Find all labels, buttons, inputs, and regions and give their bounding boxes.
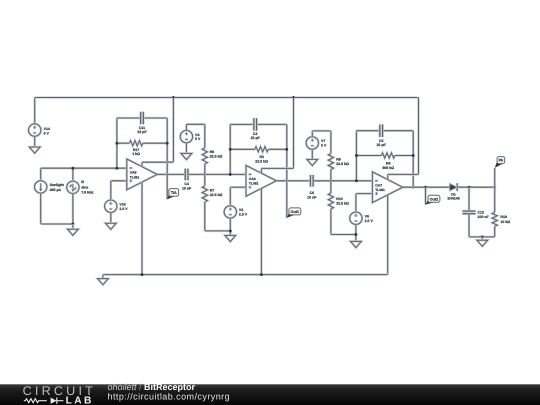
- node OA6 V- junction: [260, 273, 263, 276]
- wire D1 cathode to peak detector: [457, 186, 495, 188]
- wire R7 to V3 ground: [205, 202, 231, 231]
- wire R17 row left: [117, 142, 129, 144]
- svg-text:10 nF: 10 nF: [182, 187, 192, 191]
- svg-text:TL081: TL081: [249, 182, 259, 186]
- node peak ground junction: [481, 235, 484, 238]
- svg-text:22 pF: 22 pF: [251, 136, 261, 140]
- node C12 junction: [468, 186, 471, 189]
- node feedback2 left R3: [229, 148, 232, 151]
- wire feedback1 top: [117, 117, 167, 119]
- svg-text:22.6 kΩ: 22.6 kΩ: [255, 160, 268, 164]
- node feedback3 input: [355, 179, 358, 182]
- svg-text:22.6 kΩ: 22.6 kΩ: [210, 193, 223, 197]
- capacitor C11: [137, 112, 147, 134]
- flag Out2: [426, 195, 440, 204]
- wire OA7 output: [403, 186, 450, 188]
- wire TIA stub: [166, 174, 168, 199]
- wire OA6 V+ supply: [261, 168, 293, 173]
- resistor R7: [202, 174, 222, 202]
- node Out2 junction: [424, 186, 427, 189]
- capacitor C12: [462, 210, 489, 219]
- node feedback2 input: [229, 173, 232, 176]
- svg-text:C4: C4: [184, 182, 189, 186]
- wire feedback2 left vertical: [229, 124, 231, 174]
- wire OA8 inverting input net: [41, 168, 127, 181]
- flag TIA: [167, 189, 178, 200]
- svg-text:22.6 kΩ: 22.6 kΩ: [210, 155, 223, 159]
- wire V- ground rail: [103, 275, 388, 279]
- wire Out2 stub: [424, 187, 426, 204]
- wire V7 to ground: [311, 149, 313, 159]
- wire OA8 V+ supply: [142, 162, 173, 167]
- wire C4 to OA6: [188, 173, 246, 175]
- wire feedback2 top: [230, 123, 287, 125]
- svg-text:R6: R6: [210, 150, 215, 154]
- ground V4: [181, 153, 192, 159]
- node OA8 output junction: [166, 173, 169, 176]
- svg-text:5 V: 5 V: [321, 144, 327, 148]
- node R6 R7 junction: [203, 173, 206, 176]
- wire R8 row left: [356, 154, 381, 156]
- wire OA7 non-inverting input: [356, 194, 373, 212]
- wire peak detector bottom: [469, 236, 495, 238]
- ground V- rail: [98, 279, 109, 285]
- wire V7 to R9 top: [312, 131, 331, 154]
- op-amp OA7 TL081: [372, 172, 402, 203]
- wire feedback1 left vertical: [116, 118, 118, 168]
- capacitor C4: [182, 169, 192, 191]
- svg-text:http://circuitlab.com/cyrynrg: http://circuitlab.com/cyrynrg: [108, 392, 231, 402]
- svg-text:sine: sine: [81, 185, 88, 189]
- wire Pk stub: [494, 168, 496, 187]
- voltage source V4: [180, 130, 201, 142]
- svg-text:100 nF: 100 nF: [477, 215, 489, 219]
- wire V14 to ground: [34, 136, 36, 147]
- voltage source V16: [105, 200, 129, 212]
- wire OA6 non-inverting input: [230, 187, 246, 206]
- svg-text:22 pF: 22 pF: [377, 143, 387, 147]
- capacitor C6: [307, 175, 317, 199]
- wire C12 bottom lead: [468, 214, 470, 237]
- wire sources bottom: [41, 193, 73, 224]
- node feedback3 left R8: [355, 154, 358, 157]
- svg-text:22.6 kΩ: 22.6 kΩ: [336, 202, 349, 206]
- wire OA8 V- supply: [141, 182, 143, 275]
- voltage source V6: [350, 212, 374, 224]
- node I2 top junction: [71, 167, 74, 170]
- svg-text:5 V: 5 V: [44, 131, 50, 135]
- node V6 R10 junction: [354, 233, 357, 236]
- ground V3: [225, 235, 236, 241]
- node OA6 output junction: [285, 179, 288, 182]
- wire OA8 non-inverting input: [111, 181, 127, 200]
- wire V6 to ground: [355, 224, 357, 241]
- svg-text:C6: C6: [310, 191, 315, 195]
- svg-text:R9: R9: [336, 157, 341, 161]
- flag Out1: [287, 208, 301, 218]
- svg-text:1 kΩ: 1 kΩ: [132, 152, 140, 156]
- wire R8 row right: [395, 154, 413, 156]
- current source I2 sine: [67, 180, 94, 194]
- svg-text:909 kΩ: 909 kΩ: [382, 166, 394, 170]
- svg-text:TL081: TL081: [375, 188, 385, 192]
- svg-text:R7: R7: [210, 189, 215, 193]
- svg-text:Sunlight: Sunlight: [50, 183, 65, 187]
- svg-text:TIA: TIA: [171, 191, 177, 195]
- svg-text:Out1: Out1: [291, 210, 300, 214]
- svg-text:OA6: OA6: [249, 177, 256, 181]
- wire R3 row left: [230, 148, 255, 150]
- node feedback2 right R3: [285, 148, 288, 151]
- wire V4 to ground: [185, 143, 187, 154]
- flag Pk: [495, 157, 505, 168]
- wire OA6 V- supply: [260, 189, 262, 275]
- node feedback3 right R8: [412, 154, 415, 157]
- label R3: [255, 155, 268, 164]
- wire 5V rail: [35, 98, 419, 175]
- resistor R18: [492, 187, 510, 226]
- voltage source V14: [29, 124, 50, 136]
- svg-text:C12: C12: [477, 210, 484, 214]
- node rail junction 2: [292, 96, 295, 99]
- svg-text:OA7: OA7: [375, 183, 382, 187]
- CircuitLab logo: [23, 384, 96, 405]
- svg-text:2.5 V: 2.5 V: [119, 207, 128, 211]
- svg-text:V7: V7: [321, 139, 325, 143]
- wire feedback3 left vertical: [355, 131, 357, 181]
- op-amp OA6 TL081: [246, 165, 276, 196]
- svg-text:2.5 V: 2.5 V: [365, 219, 374, 223]
- wire R10 to V6 ground: [331, 209, 356, 235]
- diode D1 1N4148: [447, 183, 459, 200]
- ground peak detector: [477, 240, 488, 246]
- resistor R17: [129, 141, 142, 146]
- footer credit text: [108, 382, 231, 402]
- svg-text:V16: V16: [119, 202, 125, 206]
- wire feedback2 right vertical: [286, 124, 288, 180]
- node sources bottom junction: [71, 223, 74, 226]
- wire OA7 V- supply: [387, 195, 389, 275]
- ground V16: [105, 223, 116, 229]
- wire peak to ground: [481, 237, 483, 240]
- wire OA7 V+ supply: [388, 174, 419, 179]
- wire Out1 stub: [286, 181, 288, 218]
- svg-text:22.6 kΩ: 22.6 kΩ: [336, 162, 349, 166]
- wire rail drop to OA8 V+: [172, 98, 174, 163]
- wire feedback3 top: [356, 130, 413, 132]
- svg-text:2.5 V: 2.5 V: [239, 213, 248, 217]
- current source Sunlight 450uA: [35, 181, 65, 193]
- svg-text:5 V: 5 V: [195, 137, 201, 141]
- ground V6: [351, 241, 362, 247]
- svg-text:ohoilett / BitReceptor: ohoilett / BitReceptor: [108, 382, 196, 392]
- node R9 R10 junction: [329, 179, 332, 182]
- resistor R8: [381, 153, 394, 158]
- svg-text:R18: R18: [500, 215, 507, 219]
- node OA7 output junction: [412, 186, 415, 189]
- wire R9 bottom: [330, 170, 332, 181]
- wire OA6 output: [277, 180, 311, 182]
- voltage source V3: [224, 206, 248, 218]
- node feedback1 input: [115, 167, 118, 170]
- svg-text:Out2: Out2: [430, 197, 439, 201]
- svg-text:V14: V14: [44, 127, 50, 131]
- svg-text:R3: R3: [259, 155, 264, 159]
- svg-text:OA8: OA8: [130, 171, 137, 175]
- node rail junction 1: [172, 96, 175, 99]
- wire C12 top lead: [468, 187, 470, 211]
- ground V14: [29, 147, 40, 153]
- wire C6 to OA7: [313, 180, 372, 182]
- wire feedback3 right vertical: [412, 131, 414, 188]
- resistor R10: [328, 181, 349, 209]
- label R8: [382, 161, 394, 170]
- wire R17 row right: [143, 142, 167, 144]
- wire R6 bottom: [204, 164, 206, 175]
- capacitor C3: [251, 118, 261, 140]
- svg-text:7.8 kHz: 7.8 kHz: [81, 190, 93, 194]
- wire rail drop to OA6 V+: [292, 98, 294, 169]
- wire feedback1 right vertical: [166, 118, 168, 174]
- wire V4 to R6 top: [186, 124, 204, 148]
- capacitor C5: [377, 124, 387, 146]
- node R18 junction: [493, 186, 496, 189]
- svg-text:R8: R8: [386, 161, 391, 165]
- ground V7: [307, 159, 318, 165]
- ground sources: [68, 229, 79, 235]
- wire R18 bottom lead: [494, 226, 496, 237]
- node OA8 V- junction: [141, 273, 144, 276]
- label R17: [132, 148, 140, 156]
- wire V3 to ground: [229, 218, 231, 235]
- svg-text:1N4148: 1N4148: [447, 196, 459, 200]
- svg-text:22 pF: 22 pF: [137, 130, 147, 134]
- svg-text:V6: V6: [365, 214, 369, 218]
- svg-text:10 kΩ: 10 kΩ: [500, 220, 510, 224]
- node feedback1 left R17: [115, 142, 118, 145]
- svg-text:I2: I2: [81, 180, 84, 184]
- voltage source V7: [306, 137, 327, 149]
- svg-text:R10: R10: [336, 197, 343, 201]
- svg-text:TL081: TL081: [130, 175, 140, 179]
- wire V16 to ground: [110, 212, 112, 223]
- resistor R6: [202, 148, 222, 164]
- svg-text:V4: V4: [195, 133, 199, 137]
- svg-text:LAB: LAB: [66, 396, 94, 405]
- wire R3 row right: [268, 148, 287, 150]
- resistor R3: [255, 147, 268, 152]
- op-amp OA8 TL081: [127, 159, 157, 190]
- wire OA8 output: [157, 173, 185, 175]
- node V3 R7 junction: [229, 229, 232, 232]
- svg-text:V3: V3: [239, 208, 243, 212]
- svg-text:450 µA: 450 µA: [50, 188, 62, 192]
- node feedback1 right R17: [166, 142, 169, 145]
- resistor R9: [328, 154, 349, 170]
- svg-text:10 nF: 10 nF: [307, 195, 317, 199]
- footer bar: [0, 384, 540, 405]
- wire to ground I2: [72, 224, 74, 229]
